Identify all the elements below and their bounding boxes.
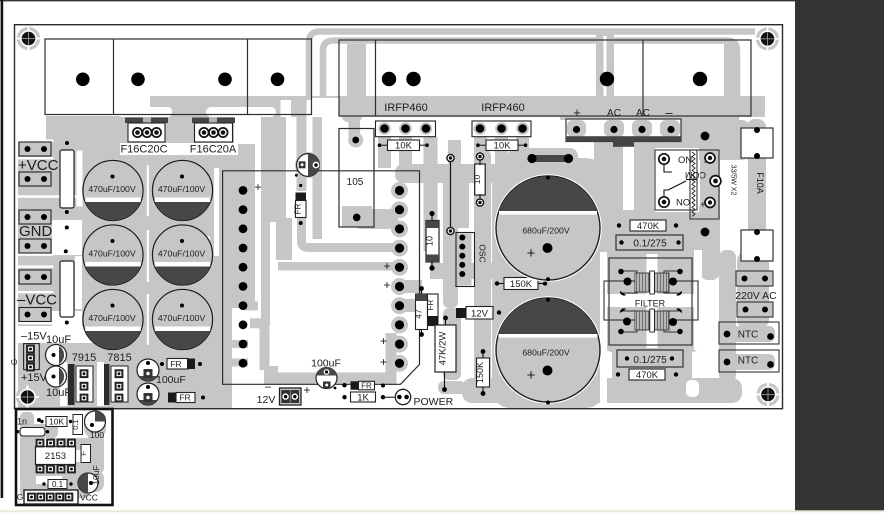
svg-text:1K: 1K: [357, 393, 369, 404]
svg-text:10uF: 10uF: [46, 387, 71, 399]
svg-text:100uF: 100uF: [156, 374, 186, 386]
svg-text:7815: 7815: [107, 352, 131, 364]
svg-text:7915: 7915: [72, 352, 96, 364]
svg-text:0.1: 0.1: [52, 480, 64, 489]
svg-text:ON: ON: [676, 196, 690, 207]
svg-text:680uF/200V: 680uF/200V: [522, 348, 570, 358]
svg-text:470uF/100V: 470uF/100V: [88, 249, 136, 259]
svg-text:10: 10: [472, 175, 482, 185]
svg-text:+: +: [254, 180, 261, 194]
svg-text:FR: FR: [426, 299, 435, 310]
svg-text:NTC: NTC: [738, 356, 759, 367]
svg-text:+: +: [380, 355, 387, 369]
svg-text:FR: FR: [179, 393, 190, 403]
svg-text:10: 10: [425, 236, 435, 246]
svg-text:+: +: [573, 105, 581, 120]
svg-text:AC: AC: [636, 108, 650, 119]
svg-text:F10A: F10A: [755, 172, 765, 194]
svg-text:VCC: VCC: [80, 493, 98, 503]
svg-text:GND: GND: [19, 223, 53, 240]
svg-text:105: 105: [347, 177, 364, 188]
svg-text:10K: 10K: [494, 141, 512, 152]
svg-text:470uF/100V: 470uF/100V: [158, 313, 206, 323]
svg-text:150K: 150K: [510, 279, 533, 290]
svg-text:OSC: OSC: [478, 244, 488, 262]
svg-text:COM: COM: [685, 170, 706, 180]
svg-text:IRFP460: IRFP460: [481, 102, 524, 114]
svg-text:F: F: [79, 451, 88, 456]
svg-text:+: +: [303, 383, 310, 397]
svg-text:470K: 470K: [636, 370, 659, 381]
svg-text:10uF: 10uF: [91, 465, 101, 484]
svg-text:IRFP460: IRFP460: [384, 102, 427, 114]
svg-text:+: +: [527, 367, 536, 384]
svg-text:10uF: 10uF: [46, 334, 71, 346]
svg-text:+: +: [700, 200, 706, 211]
svg-text:2153: 2153: [45, 451, 66, 462]
svg-text:+: +: [380, 334, 387, 348]
svg-text:33/5W X2: 33/5W X2: [730, 165, 737, 196]
svg-text:10K: 10K: [395, 141, 413, 152]
svg-text:+15V: +15V: [21, 372, 48, 384]
svg-text:F16C20A: F16C20A: [190, 144, 237, 156]
svg-text:POWER: POWER: [414, 396, 454, 408]
svg-text:AC: AC: [607, 108, 621, 119]
svg-text:0.1/275: 0.1/275: [633, 239, 667, 250]
svg-text:–VCC: –VCC: [17, 292, 57, 309]
svg-text:+: +: [383, 259, 390, 273]
svg-text:G: G: [17, 493, 23, 502]
svg-text:–15V: –15V: [21, 331, 47, 343]
svg-text:150K: 150K: [475, 362, 485, 383]
svg-text:FR: FR: [361, 382, 372, 391]
svg-text:FR: FR: [170, 359, 181, 369]
svg-text:12V: 12V: [471, 309, 489, 320]
svg-text:0.1: 0.1: [71, 419, 80, 429]
svg-text:470uF/100V: 470uF/100V: [88, 184, 136, 194]
svg-text:0.1/275: 0.1/275: [633, 355, 667, 366]
svg-text:100: 100: [90, 430, 104, 440]
svg-text:F16C20C: F16C20C: [120, 144, 167, 156]
svg-text:470uF/100V: 470uF/100V: [158, 249, 206, 259]
svg-text:47: 47: [414, 309, 424, 319]
svg-text:12V: 12V: [257, 394, 276, 406]
svg-text:470uF/100V: 470uF/100V: [158, 184, 206, 194]
svg-text:–: –: [665, 105, 673, 120]
svg-text:+: +: [527, 245, 536, 262]
svg-text:10K: 10K: [49, 417, 64, 427]
svg-text:+VCC: +VCC: [18, 157, 59, 174]
svg-text:+: +: [383, 278, 390, 292]
svg-text:220V AC: 220V AC: [735, 290, 777, 302]
svg-text:G: G: [10, 359, 19, 365]
svg-text:47K/2W: 47K/2W: [438, 332, 449, 366]
svg-text:470K: 470K: [637, 221, 660, 232]
svg-text:FR: FR: [294, 203, 303, 214]
svg-text:–: –: [265, 381, 272, 393]
svg-text:NTC: NTC: [738, 330, 759, 341]
svg-text:FILTER: FILTER: [635, 299, 666, 309]
svg-text:680uF/200V: 680uF/200V: [522, 226, 570, 236]
svg-text:1n: 1n: [17, 417, 27, 427]
svg-text:–: –: [704, 158, 709, 168]
svg-text:470uF/100V: 470uF/100V: [88, 313, 136, 323]
